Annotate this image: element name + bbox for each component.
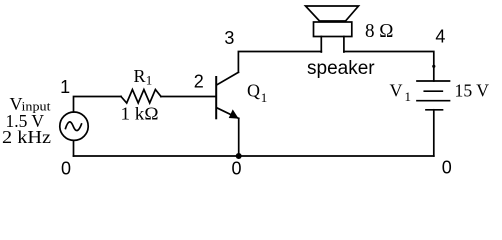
- wire: [73, 140, 75, 156]
- svg-text:15 V: 15 V: [455, 81, 490, 101]
- emitter arrowhead: [230, 110, 238, 118]
- speaker: [306, 6, 359, 21]
- svg-text:1: 1: [261, 90, 268, 105]
- svg-text:1 kΩ: 1 kΩ: [121, 103, 159, 123]
- junction dot: [236, 153, 242, 159]
- wire: [238, 52, 321, 73]
- svg-text:1: 1: [60, 77, 70, 97]
- battery V1: [417, 80, 450, 82]
- svg-text:0: 0: [61, 159, 71, 179]
- svg-text:8 Ω: 8 Ω: [365, 21, 394, 42]
- svg-text:4: 4: [435, 26, 445, 46]
- wire: [74, 97, 122, 113]
- svg-text:Q: Q: [247, 81, 260, 101]
- node dot: [432, 65, 435, 68]
- svg-text:speaker: speaker: [307, 58, 375, 79]
- wire: [74, 155, 434, 157]
- svg-text:2: 2: [194, 71, 204, 91]
- svg-text:1: 1: [405, 89, 412, 104]
- svg-text:0: 0: [231, 159, 241, 179]
- svg-text:V: V: [390, 81, 403, 101]
- transistor Q1: [215, 77, 217, 118]
- resistor R1: [121, 90, 161, 104]
- wire: [161, 96, 215, 98]
- svg-text:2 kHz: 2 kHz: [2, 127, 51, 147]
- svg-text:R: R: [134, 66, 146, 86]
- wire: [238, 118, 240, 156]
- svg-text:1: 1: [146, 73, 153, 88]
- AC source Vinput: [60, 112, 88, 140]
- svg-text:3: 3: [224, 28, 234, 48]
- wire: [344, 52, 434, 82]
- svg-text:0: 0: [442, 158, 452, 178]
- wire: [433, 110, 435, 156]
